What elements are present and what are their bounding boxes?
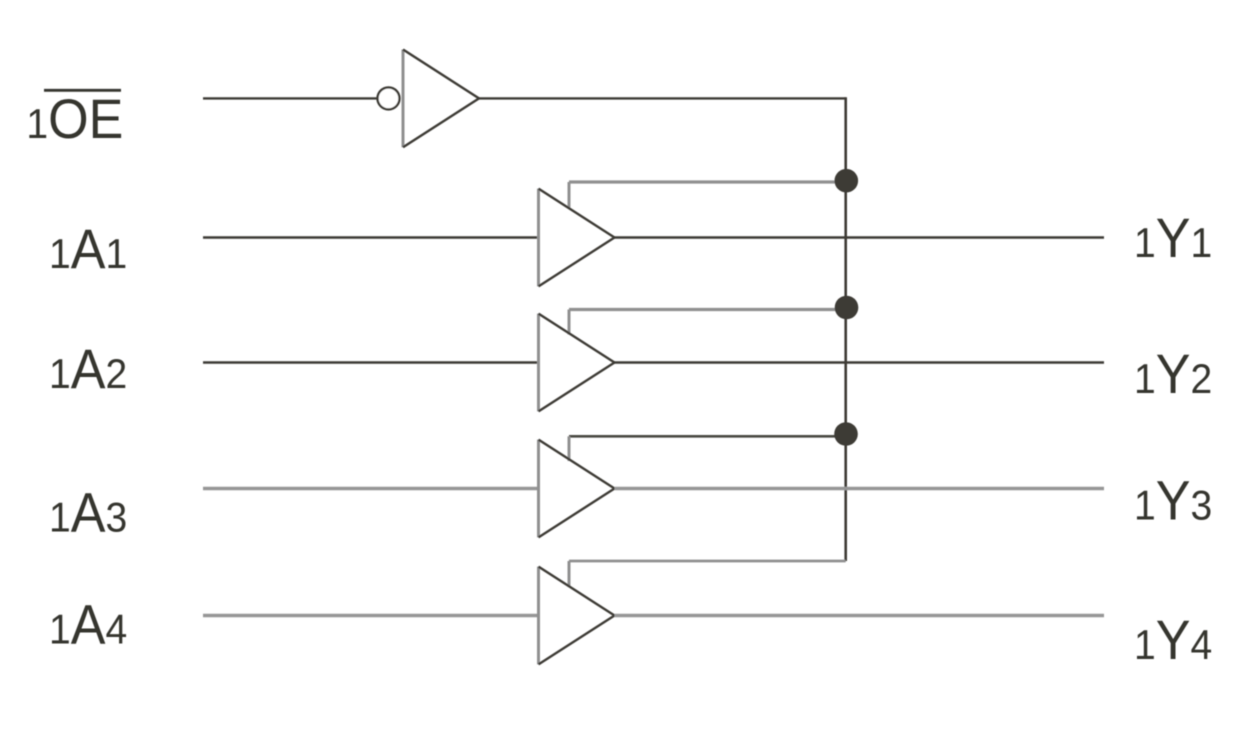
- svg-text:1A2: 1A2: [49, 338, 127, 400]
- svg-text:1Y4: 1Y4: [1134, 609, 1212, 671]
- svg-text:1A4: 1A4: [49, 594, 127, 656]
- svg-text:1A3: 1A3: [49, 482, 127, 544]
- svg-text:1Y1: 1Y1: [1134, 207, 1212, 269]
- svg-text:1Y3: 1Y3: [1134, 470, 1212, 532]
- svg-text:1A1: 1A1: [49, 218, 127, 280]
- svg-text:1Y2: 1Y2: [1134, 343, 1212, 405]
- svg-text:1OE: 1OE: [26, 88, 123, 150]
